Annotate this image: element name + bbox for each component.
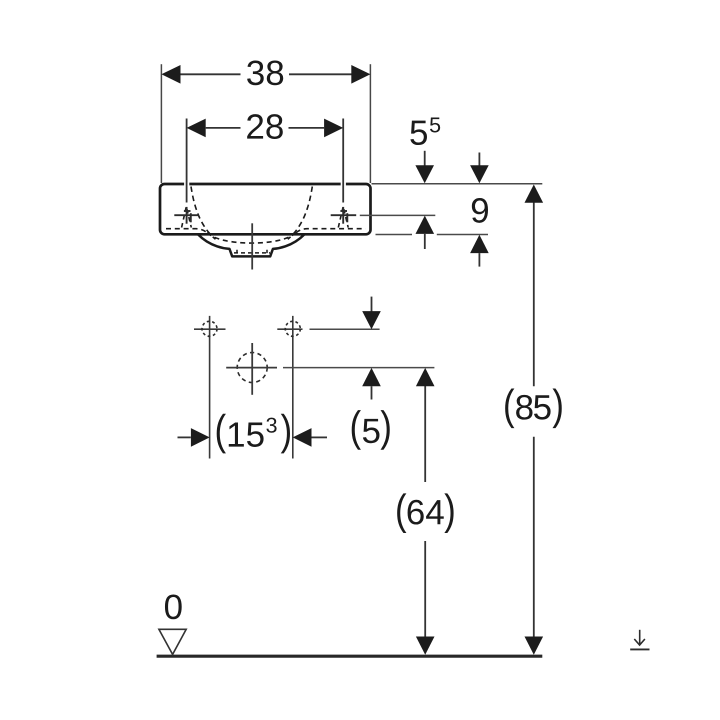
hidden inner floor line right (dashed) [296,229,366,233]
rim gaps at extension line crossings [184,182,189,186]
fixing hole left circle (dashed) [202,321,217,336]
dimension (64) [397,368,453,655]
dimension (85) [505,185,562,655]
dim 9 top arrow [478,153,480,167]
drain axis line [251,223,253,269]
drain outlet circle (dashed) [237,353,267,383]
dimension (5) [352,297,390,450]
hidden bowl wall right (dashed) [288,187,313,240]
tap boss right (dashed tent) [338,207,348,228]
washbasin body outline [160,184,371,234]
fixing hole right circle (dashed) [285,321,300,336]
tap level reference line [360,214,436,216]
dimension 38 [161,60,370,183]
drain outlet cross [251,343,253,395]
tap hole cross left [174,207,199,224]
top surface reference line [372,183,543,185]
dim 5^5 bottom arrow [424,234,426,249]
tap boss left (dashed tent) [182,207,192,228]
dim 9 bottom arrow [478,253,480,267]
fixing hole left cross [209,316,211,459]
fixing hole right cross [292,316,294,459]
hidden bowl wall left (dashed) [191,187,216,240]
datum triangle [159,629,186,654]
drain level line [283,367,434,369]
dimension 28 [187,114,344,202]
visible under-bowl and drain boss outline [198,234,304,256]
datum zero label [165,594,182,619]
dimension 5^5 (label) [410,118,440,146]
drain boss hidden side ticks (dashed) [237,250,267,257]
hidden inner floor line left (dashed) [166,229,207,233]
dimension (15^3) [178,414,328,454]
fixing hole level line [310,328,380,330]
hidden bowl bottom sag (dashed) [207,233,296,243]
tap hole cross right [331,207,357,224]
floor line [157,655,543,658]
basin bottom reference line [376,234,489,236]
floor reference icon (arrow onto line) [630,630,649,650]
dim 5^5 top arrow [424,151,426,166]
drain boss hidden edge (dashed) [234,252,270,254]
dimension 9 (label) [472,198,488,223]
